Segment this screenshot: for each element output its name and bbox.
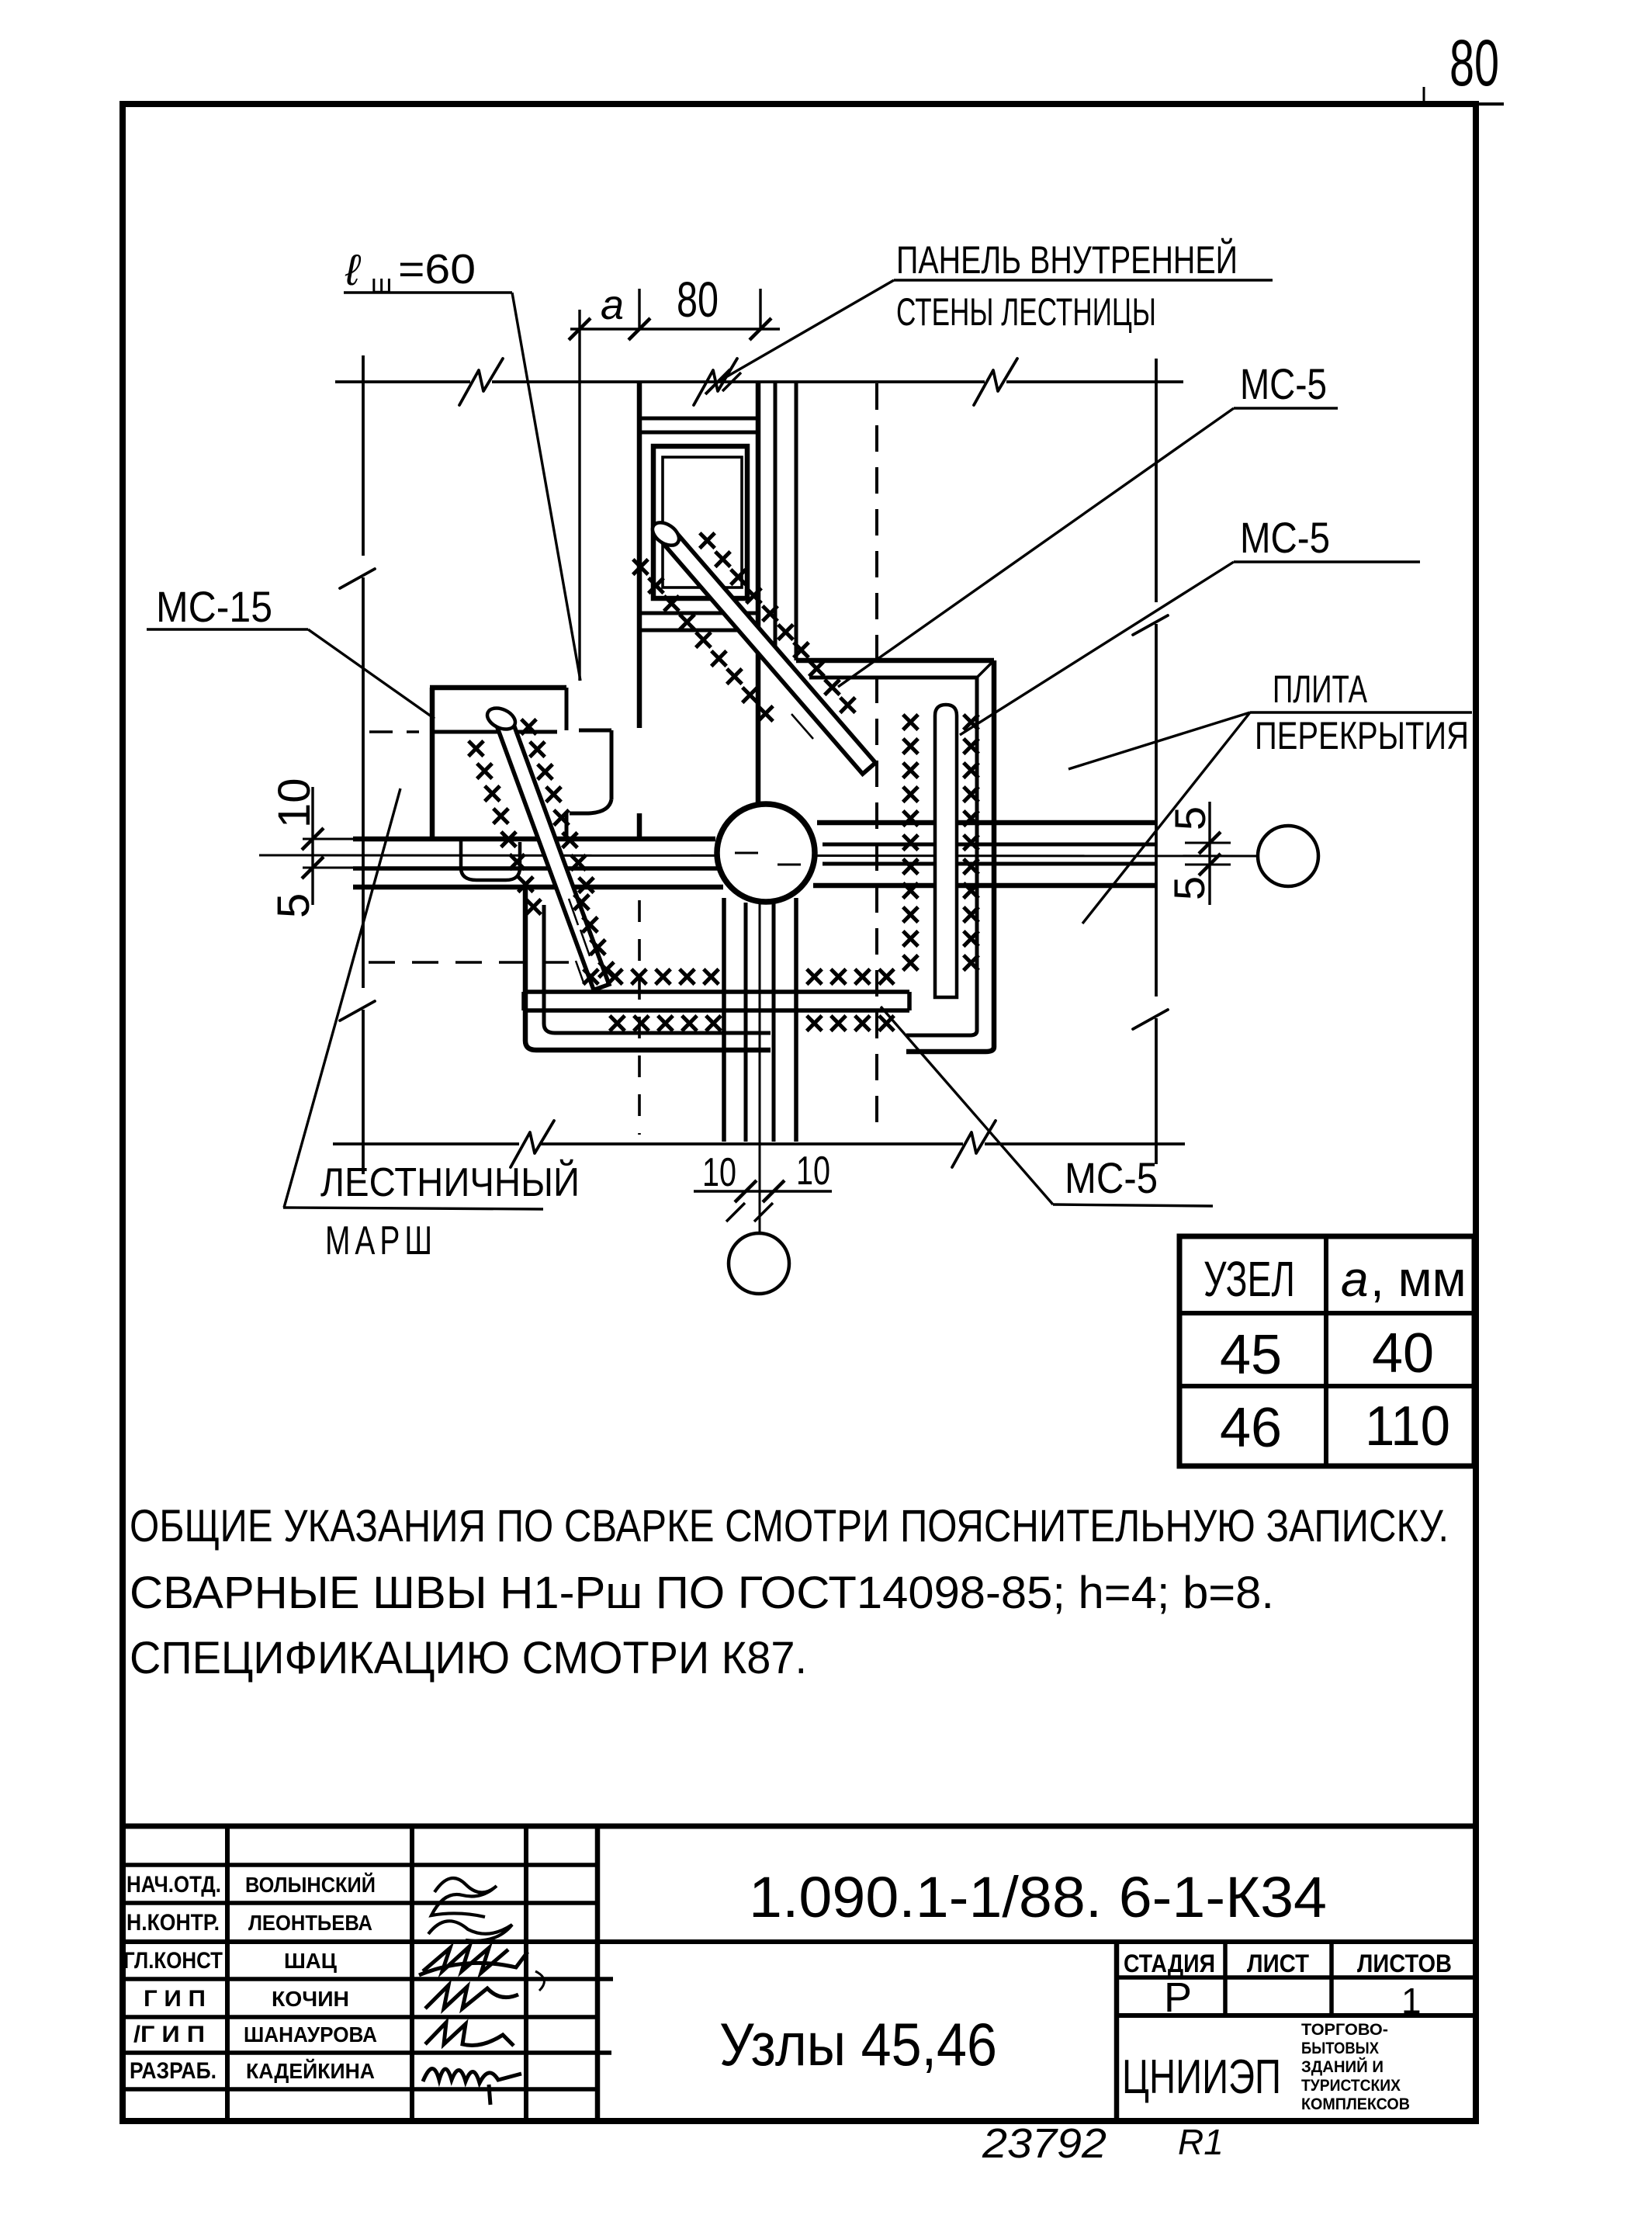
svg-text:ЛЕОНТЬЕВА: ЛЕОНТЬЕВА	[248, 1911, 372, 1935]
svg-text:a: a	[601, 282, 624, 328]
svg-text:МС-5: МС-5	[1240, 513, 1330, 562]
floor slab edge lines, left side	[353, 837, 715, 842]
title block: signatures (scribbles)	[431, 1878, 497, 1917]
svg-text:ПЛИТА: ПЛИТА	[1273, 667, 1367, 711]
svg-text:×: ×	[828, 1003, 849, 1043]
svg-text:1: 1	[1401, 1981, 1422, 2021]
svg-text:×: ×	[828, 956, 849, 996]
svg-text:5: 5	[268, 893, 319, 918]
svg-text:ВОЛЫНСКИЙ: ВОЛЫНСКИЙ	[245, 1872, 376, 1897]
svg-text:, мм: , мм	[1370, 1251, 1467, 1307]
sheet frame border	[123, 104, 1476, 2121]
stair flight tongue into wall slot	[579, 729, 611, 733]
title block grid	[120, 1824, 1478, 1829]
slab joint axis (thin horizontal)	[259, 855, 1258, 856]
svg-text:×: ×	[701, 956, 722, 996]
svg-text:ЦНИИЭП: ЦНИИЭП	[1122, 2050, 1281, 2104]
svg-text:40: 40	[1372, 1322, 1434, 1385]
keyway recess outer rect	[653, 446, 747, 598]
outline boundary: top edge of wall panels (broken line)	[335, 380, 470, 383]
svg-text:ЗДАНИЙ И: ЗДАНИЙ И	[1301, 2057, 1384, 2076]
svg-text:×: ×	[804, 956, 825, 996]
svg-text:РАЗРАБ.: РАЗРАБ.	[130, 2058, 216, 2084]
svg-text:80: 80	[1449, 26, 1499, 99]
svg-text:×: ×	[900, 942, 921, 983]
svg-text:СПЕЦИФИКАЦИЮ СМОТРИ К87.: СПЕЦИФИКАЦИЮ СМОТРИ К87.	[130, 1633, 807, 1683]
svg-text:Р: Р	[1164, 1974, 1192, 2021]
svg-text:БЫТОВЫХ: БЫТОВЫХ	[1301, 2040, 1379, 2057]
svg-text:×: ×	[837, 685, 858, 725]
svg-text:×: ×	[852, 956, 873, 996]
svg-text:×: ×	[679, 1003, 700, 1043]
svg-text:×: ×	[580, 956, 601, 996]
svg-text:ℓ: ℓ	[345, 245, 362, 294]
hidden wall face below joint (dashed)	[638, 900, 641, 1135]
MC-5 anchor rod (diagonal, upper)	[663, 532, 876, 774]
svg-text:×: ×	[852, 1003, 873, 1043]
keyway lower double lines	[639, 612, 758, 615]
svg-text:10: 10	[796, 1149, 830, 1194]
svg-text:23792: 23792	[982, 2120, 1107, 2167]
stair flight end block	[430, 685, 566, 691]
svg-text:МС-5: МС-5	[1065, 1153, 1158, 1202]
floor slab chamfered edge, lower right	[906, 1047, 994, 1052]
floor slab edge lines, right side	[817, 820, 1156, 826]
outline boundary: right broken line	[1155, 359, 1158, 602]
svg-text:1.090.1-1/88. 6-1-К34: 1.090.1-1/88. 6-1-К34	[749, 1865, 1327, 1929]
svg-text:110: 110	[1365, 1395, 1450, 1457]
svg-text:×: ×	[523, 886, 544, 927]
svg-text:10: 10	[269, 778, 320, 828]
svg-text:МС-15: МС-15	[156, 582, 272, 631]
svg-text:×: ×	[655, 1003, 676, 1043]
svg-text:R1: R1	[1178, 2122, 1224, 2162]
keyway recess inner rect	[663, 457, 742, 587]
svg-text:ЛИСТ: ЛИСТ	[1247, 1950, 1309, 1977]
MC-15 plate bottom edge	[432, 730, 557, 734]
svg-text:УЗЕЛ: УЗЕЛ	[1204, 1251, 1295, 1307]
svg-text:Г И П: Г И П	[144, 1986, 206, 2012]
svg-text:ЛЕСТНИЧНЫЙ: ЛЕСТНИЧНЫЙ	[320, 1159, 580, 1205]
wall panel of stair interior wall (vertical, above joint)	[637, 382, 642, 728]
svg-text:КОЧИН: КОЧИН	[272, 1987, 349, 2011]
svg-text:ЛИСТОВ: ЛИСТОВ	[1357, 1950, 1452, 1977]
svg-text:ТУРИСТСКИХ: ТУРИСТСКИХ	[1301, 2077, 1401, 2095]
floor slab chamfered edge, upper right	[796, 658, 994, 664]
svg-text:МАРШ: МАРШ	[325, 1218, 437, 1263]
svg-text:ГЛ.КОНСТ: ГЛ.КОНСТ	[123, 1948, 223, 1974]
svg-text:НАЧ.ОТД.: НАЧ.ОТД.	[126, 1872, 221, 1898]
MC-15 anchor rod (diagonal, left)	[495, 716, 609, 990]
outline boundary: bottom broken line	[333, 1142, 519, 1145]
node table: УЗЕЛ / a,мм	[1179, 1236, 1474, 1466]
svg-text:ШАЦ: ШАЦ	[284, 1949, 338, 1973]
svg-text:ш: ш	[371, 269, 392, 299]
svg-text:5: 5	[1165, 876, 1214, 900]
dimension 5 / 5 (right, rotated)	[1208, 802, 1210, 905]
svg-text:80: 80	[677, 272, 719, 328]
svg-text:ПЕРЕКРЫТИЯ: ПЕРЕКРЫТИЯ	[1255, 714, 1469, 757]
svg-text:45: 45	[1220, 1324, 1282, 1386]
hidden axis of wall (dashed)	[875, 383, 878, 1132]
svg-text:×: ×	[607, 1003, 628, 1043]
svg-text:/Г И П: /Г И П	[133, 2022, 205, 2047]
hidden line lower left (dashed)	[369, 961, 578, 964]
bottom connecting plate MC-5	[524, 990, 909, 994]
wall panels below joint	[722, 898, 726, 1142]
welded joint grout blob (center)	[717, 804, 815, 902]
svg-text:КОМПЛЕКСОВ: КОМПЛЕКСОВ	[1301, 2095, 1410, 2113]
svg-text:10: 10	[702, 1150, 736, 1195]
svg-text:×: ×	[755, 693, 776, 733]
outline boundary: left broken line	[362, 355, 365, 556]
MC-5 connecting plate (vertical, right)	[935, 705, 957, 997]
svg-text:=60: =60	[398, 246, 476, 293]
svg-text:ШАНАУРОВА: ШАНАУРОВА	[244, 2022, 377, 2047]
svg-text:×: ×	[631, 1003, 652, 1043]
dimension 10 / 5 (left, rotated)	[311, 787, 313, 905]
svg-text:×: ×	[703, 1003, 724, 1043]
svg-text:a: a	[1341, 1251, 1369, 1307]
svg-text:×: ×	[653, 956, 674, 996]
axis circle, right	[1258, 826, 1318, 886]
svg-text:×: ×	[876, 956, 897, 996]
svg-text:×: ×	[961, 942, 982, 983]
svg-text:46: 46	[1220, 1397, 1282, 1459]
svg-text:ПАНЕЛЬ ВНУТРЕННЕЙ: ПАНЕЛЬ ВНУТРЕННЕЙ	[896, 237, 1238, 282]
svg-text:×: ×	[629, 956, 649, 996]
floor slab chamfered edge, lower left (U-shape)	[525, 889, 771, 1050]
axis circle, bottom	[729, 1233, 789, 1294]
slab pocket below stair flight	[461, 839, 520, 880]
svg-text:СТЕНЫ ЛЕСТНИЦЫ: СТЕНЫ ЛЕСТНИЦЫ	[896, 290, 1156, 334]
keyway upper double lines	[639, 417, 758, 421]
svg-text:×: ×	[677, 956, 698, 996]
svg-text:ТОРГОВО-: ТОРГОВО-	[1301, 2021, 1388, 2039]
dimension a / 80 (top)	[570, 328, 780, 330]
svg-text:×: ×	[604, 956, 625, 996]
svg-text:Н.КОНТР.: Н.КОНТР.	[126, 1910, 220, 1936]
svg-text:Узлы 45,46: Узлы 45,46	[719, 2010, 997, 2078]
svg-text:МС-5: МС-5	[1240, 359, 1327, 408]
svg-text:СТАДИЯ: СТАДИЯ	[1124, 1950, 1215, 1977]
dimension 10 | 10 (bottom)	[694, 1190, 832, 1192]
svg-text:КАДЕЙКИНА: КАДЕЙКИНА	[246, 2058, 375, 2083]
hidden line of stair flight (dashed, left)	[369, 730, 419, 733]
svg-text:СВАРНЫЕ ШВЫ Н1-Рш ПО ГОСТ14098: СВАРНЫЕ ШВЫ Н1-Рш ПО ГОСТ14098-85; h=4; …	[130, 1568, 1274, 1618]
svg-text:×: ×	[804, 1003, 825, 1043]
svg-text:ОБЩИЕ УКАЗАНИЯ ПО СВАРКЕ СМОТР: ОБЩИЕ УКАЗАНИЯ ПО СВАРКЕ СМОТРИ ПОЯСНИТЕ…	[130, 1501, 1449, 1551]
vertical axis to bottom circle (thin)	[759, 904, 761, 1233]
